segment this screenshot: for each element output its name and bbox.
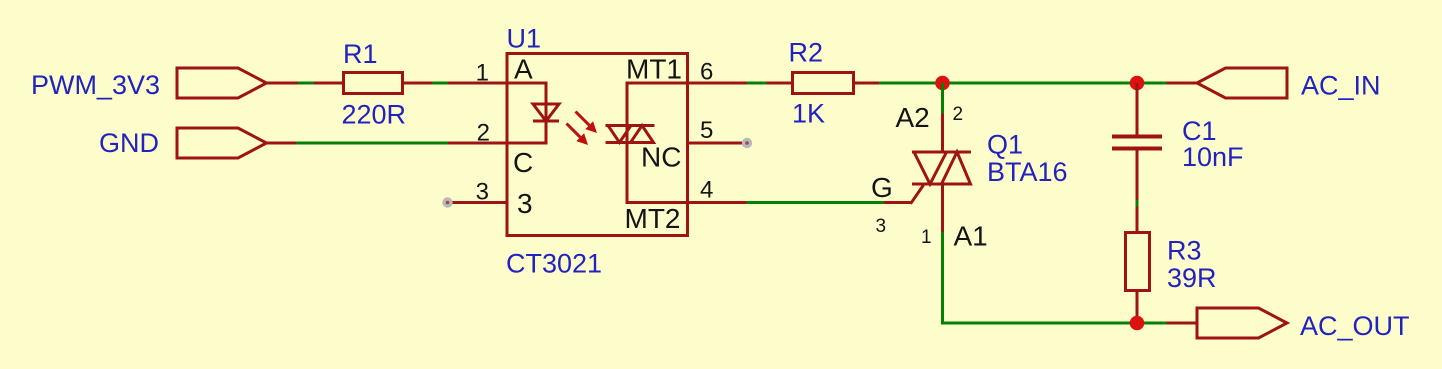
svg-text:A: A [514,54,533,85]
Q1 pin names [871,102,988,252]
op-coupler U1 box [506,24,688,279]
svg-text:PWM_3V3: PWM_3V3 [31,70,160,100]
junction node at Q1 A2 [935,76,950,91]
svg-text:R2: R2 [789,38,824,68]
wire R3 to bottom node [1136,292,1139,324]
svg-text:Q1: Q1 [987,130,1023,160]
capacitor C1 [1112,83,1244,200]
wire pin6 to R2 [747,82,792,85]
svg-text:10nF: 10nF [1182,142,1244,172]
no-connect dot pin5 [742,138,752,148]
inner lines to right pins [627,83,688,203]
light arrows [567,112,598,146]
svg-text:BTA16: BTA16 [987,157,1068,187]
svg-text:AC_OUT: AC_OUT [1300,311,1410,341]
svg-text:A2: A2 [896,102,930,133]
U1 pin numbers left [476,60,490,206]
wire GND to U1 pin2 [267,142,508,145]
svg-text:2: 2 [477,120,490,147]
svg-text:4: 4 [700,177,713,204]
svg-text:G: G [871,172,893,203]
pin 4 stub [688,201,747,204]
no-connect dot pin3 [442,197,452,207]
svg-text:1K: 1K [792,99,825,129]
wire junction to Q1 A2 [941,83,944,152]
junction node AC_OUT [1130,316,1145,331]
svg-text:2: 2 [953,104,964,125]
U1 pin numbers right [700,59,713,204]
pin 5 stub [688,142,747,145]
svg-text:U1: U1 [507,24,542,54]
resistor R2 [789,38,854,129]
connector GND [99,128,267,158]
svg-text:1: 1 [476,60,489,87]
wire PWM_3V3 to R1 [267,82,343,85]
svg-text:39R: 39R [1167,263,1217,293]
svg-text:NC: NC [641,142,681,173]
connector AC_IN [1197,68,1381,101]
svg-text:6: 6 [700,59,713,86]
connector PWM_3V3 [31,68,267,100]
U1 pin names left [513,54,533,220]
svg-text:C: C [513,147,533,178]
svg-text:1: 1 [921,227,932,248]
svg-text:5: 5 [700,117,713,144]
pin 3 stub U1 [448,201,507,204]
U1 pin names right [625,54,683,235]
svg-text:220R: 220R [342,100,407,130]
wire pin4 to gate G [747,201,913,204]
wire Q1 A1 down [941,184,944,325]
pin 6 stub [688,82,747,85]
wire R1 to U1 pin1 [404,82,507,85]
svg-text:A1: A1 [954,221,988,252]
connector AC_OUT [1197,308,1410,341]
resistor R1 [342,39,407,130]
internal triac of U1 [606,82,655,205]
svg-text:3: 3 [476,179,489,206]
LED inside U1 [507,82,559,145]
svg-text:R1: R1 [343,39,378,69]
svg-text:MT1: MT1 [626,54,682,85]
svg-text:CT3021: CT3021 [506,249,602,279]
svg-text:MT2: MT2 [625,203,681,234]
svg-text:R3: R3 [1167,236,1202,266]
svg-text:GND: GND [99,128,159,158]
svg-text:3: 3 [876,216,887,237]
junction node AC_IN branch [1130,76,1145,91]
wire R2 to AC_IN [855,82,1197,85]
wire C1 to R3 [1136,200,1139,231]
svg-text:AC_IN: AC_IN [1301,71,1381,101]
resistor R3 [1126,233,1217,294]
svg-text:3: 3 [517,188,533,219]
bottom wire A1 to AC_OUT [941,322,1197,325]
Q1 pin numbers [876,104,964,248]
triac Q1 [911,130,1068,204]
